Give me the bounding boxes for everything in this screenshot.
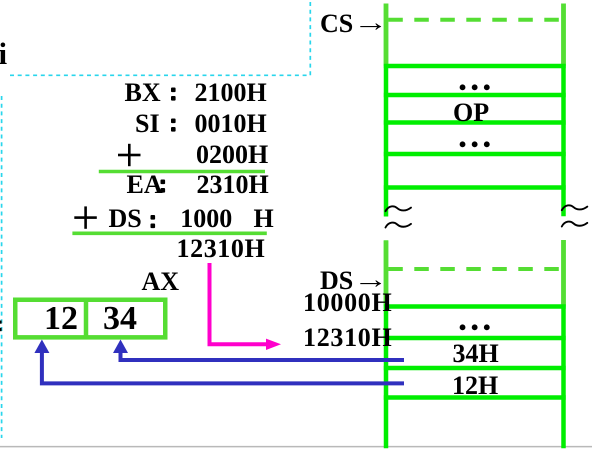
- colon of SI line: [171, 119, 176, 132]
- AX high byte value: [44, 302, 78, 336]
- colon of EA line: [161, 180, 166, 193]
- DS memory block: left vertical line: [384, 240, 389, 448]
- address label 10000H: [303, 290, 392, 316]
- plus sign (line 5): [74, 206, 97, 228]
- AX register box: [15, 300, 165, 338]
- DS cell line 1 (10000H): [384, 304, 566, 309]
- blue arrow: 12H cell to AX high byte: [42, 353, 404, 384]
- physical address result: [177, 236, 266, 262]
- CS cell line 1: [384, 64, 566, 69]
- DS cell line 4 (bottom): [384, 395, 566, 400]
- DS cell line 2 (12310H): [384, 336, 566, 341]
- address label 12310H: [303, 325, 392, 351]
- DS cell line 3: [384, 366, 566, 371]
- AX box divider: [84, 298, 89, 340]
- DS memory block: right vertical line: [561, 240, 566, 448]
- colon of DS line: [151, 215, 156, 228]
- blue arrow: 34H cell to AX low byte: [121, 353, 405, 361]
- DS line: [109, 206, 142, 232]
- colon of BX line: [171, 88, 176, 101]
- CS pointer label: [320, 11, 353, 37]
- CS memory block: right vertical line: [561, 4, 566, 217]
- DS pointer label: [320, 268, 353, 294]
- break tildes left: [386, 206, 412, 227]
- CS cell line 5 (bottom): [384, 185, 566, 190]
- EA line: [127, 172, 163, 198]
- 34H cell text: [453, 341, 499, 367]
- CS memory block: left vertical line: [384, 4, 389, 217]
- BX line: [125, 80, 161, 106]
- leftover colon fragment at left edge: [0, 321, 2, 324]
- slide bottom gray line: [0, 446, 592, 448]
- CS cell ellipsis 1: [457, 60, 493, 96]
- DS dashed segment-start line: [388, 267, 560, 271]
- 12H cell text: [452, 373, 498, 399]
- green underline under 0200H: [99, 170, 265, 174]
- CS cell line 4: [384, 152, 566, 157]
- content placeholder dashed cyan left edge: [1, 96, 3, 438]
- CS dashed segment-start line: [388, 18, 560, 22]
- CS cell line 2: [384, 93, 566, 98]
- break tildes right: [562, 205, 588, 226]
- green underline under DS 1000H: [72, 232, 266, 236]
- OP code cell text: [453, 100, 489, 126]
- magenta arrow from 12310H to memory: [210, 263, 268, 344]
- AX label: [142, 269, 180, 295]
- clipped letter fragment top-left: [0, 38, 7, 69]
- plus sign (line 3): [118, 144, 141, 166]
- title placeholder dashed cyan border (bottom + right edge): [10, 0, 310, 75]
- CS cell line 3: [384, 120, 566, 125]
- 0200H line (displacement): [196, 142, 268, 168]
- AX low byte value: [103, 302, 137, 336]
- SI line: [135, 111, 160, 137]
- DS cell ellipsis: [457, 300, 493, 336]
- CS cell ellipsis 2: [457, 117, 493, 153]
